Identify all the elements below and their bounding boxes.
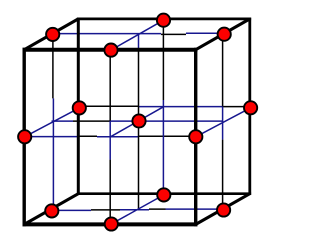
bottom face z-diagonal [111, 195, 164, 224]
right face vertical center line [222, 34, 224, 210]
back face top edge [77, 18, 251, 21]
atom back-left edge midpoint [73, 101, 86, 114]
front face top edge [23, 48, 198, 52]
front face right edge [194, 48, 197, 227]
front face horizontal center line [25, 135, 196, 138]
atom body center [132, 114, 145, 127]
bottom-left connector edge [24, 194, 78, 225]
back face left edge [77, 18, 80, 195]
atom back-bottom edge midpoint [157, 188, 170, 201]
front face bottom edge [23, 222, 198, 226]
atom back-right edge midpoint [244, 101, 257, 114]
top face x-line [53, 33, 225, 34]
right face z-diagonal [196, 108, 251, 137]
atom back-top edge midpoint [157, 14, 170, 27]
interior z-diagonal [111, 107, 164, 137]
atom left-top edge midpoint [46, 28, 59, 41]
atom front-top edge midpoint [104, 44, 117, 57]
interior x-line [52, 120, 223, 122]
atom right-bottom edge midpoint [217, 203, 230, 216]
bottom-right connector edge [196, 194, 250, 225]
interior vertical line [138, 34, 140, 210]
front face vertical center line [109, 50, 111, 224]
top face z-diagonal [111, 20, 164, 50]
back face vertical center line [162, 19, 164, 195]
atom right-top edge midpoint [218, 28, 231, 41]
atom front-left edge midpoint [18, 130, 31, 143]
atom front-bottom edge midpoint [105, 217, 118, 230]
top-right connector edge [196, 19, 250, 50]
atom front-right edge midpoint [189, 130, 202, 143]
back face horizontal center line [78, 105, 250, 107]
back face right edge [248, 18, 251, 195]
front face left edge [23, 48, 26, 227]
left face z-diagonal [25, 108, 80, 137]
left face vertical center line [52, 34, 55, 211]
bottom face x-line [52, 209, 224, 210]
back face bottom edge [77, 192, 251, 195]
atom left-bottom edge midpoint [45, 204, 58, 217]
top-left connector edge [24, 19, 78, 50]
